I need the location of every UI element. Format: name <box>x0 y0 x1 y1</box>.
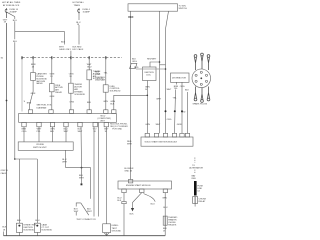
svg-text:SOLENOID: SOLENOID <box>41 230 52 232</box>
wire col6 label GRN BLK <box>110 101 115 105</box>
MCU top pin 6 <box>112 110 116 114</box>
wire heater pin1 down <box>123 193 125 202</box>
svg-text:GND 14: GND 14 <box>124 170 132 172</box>
distributor body box <box>171 73 190 82</box>
solenoid box2 label <box>41 223 52 231</box>
solid state ignition module box <box>141 137 193 146</box>
wire label BLU WHT mid <box>79 175 84 179</box>
wire merged column down to MCU <box>70 51 72 110</box>
svg-text:WHT: WHT <box>79 178 84 180</box>
wire heater pin3 label GRN <box>162 197 167 199</box>
wire label BLU at y40 on x14.8 <box>13 41 18 43</box>
spark plug lower 2 <box>201 88 204 103</box>
wire col5 from boundary down <box>105 58 107 110</box>
svg-text:HOT AT ALL TIMES: HOT AT ALL TIMES <box>2 1 21 4</box>
svg-text:ORG: ORG <box>69 102 74 104</box>
ignition coil box <box>143 67 157 81</box>
MCU top pin 2 <box>49 110 53 114</box>
box E label <box>110 86 121 93</box>
svg-text:DIAGRAM: DIAGRAM <box>37 106 47 109</box>
svg-text:WHT: WHT <box>78 131 83 133</box>
alternator note dashes lower <box>194 170 196 174</box>
wire heater pin2 arc branch <box>144 194 156 202</box>
wire label YEL on pin a wire <box>173 97 178 99</box>
off-page flag on x130.7 wire <box>130 63 137 68</box>
svg-text:TO IGN: TO IGN <box>179 5 187 7</box>
wire from feed box x131 long to heater control <box>130 11 132 179</box>
wire label WHT on x159.5 <box>156 99 161 101</box>
svg-text:BLK: BLK <box>110 103 115 105</box>
wire label GRY 18 <box>3 19 8 23</box>
svg-text:WHT: WHT <box>156 99 161 101</box>
junction splice dot on left wire <box>6 100 8 102</box>
choke relay fuse label <box>199 199 207 204</box>
junction dot at L bend <box>14 158 16 160</box>
solenoid box A (canister purge) <box>31 73 36 81</box>
wire col3 label below box <box>69 102 74 104</box>
ground bus left end tick <box>3 232 5 236</box>
wire label ORG lower x165.5 <box>167 119 172 121</box>
wire coil top jog <box>150 62 160 67</box>
wire label BAT RED <box>192 174 197 179</box>
terminal square end of pin5 wire <box>81 183 83 185</box>
heater control switch box <box>118 181 172 189</box>
wire L bend bottom: horizontal y159 <box>15 158 38 160</box>
wire corner from y31 branch down at x64.3 <box>63 31 65 44</box>
MCU top pin 4 <box>87 110 91 114</box>
test connector jumper diagonal <box>81 203 89 215</box>
wire drop x90.6 to test connector <box>90 168 92 199</box>
wire jog x159.5 to x165.5 <box>160 64 166 66</box>
wire module pin6 label <box>185 89 190 91</box>
svg-text:COIL: COIL <box>146 75 152 77</box>
solenoid box C <box>69 83 74 93</box>
test connector stub label left <box>74 209 79 213</box>
test connector stub label right <box>87 209 92 213</box>
wire fuse F2 down <box>78 14 80 45</box>
firewall dashed boundary horizontal <box>23 57 122 59</box>
svg-text:HOT AT ALL: HOT AT ALL <box>73 1 85 4</box>
arc branch label BLU <box>151 203 156 205</box>
svg-text:BLU: BLU <box>61 42 66 44</box>
wire heater pin2 diagonal <box>133 193 142 208</box>
svg-text:TEST CONNECTOR: TEST CONNECTOR <box>76 219 96 221</box>
alternator note dashes upper <box>194 158 196 163</box>
MCU bottom pin 1 <box>22 122 26 126</box>
wire left main vertical continues to ground bus <box>6 23 8 236</box>
splice mark left of dash start <box>1 57 4 59</box>
MCU bottom pin 6 <box>93 122 97 126</box>
test connector left lower stub <box>75 212 77 216</box>
svg-text:BLK: BLK <box>117 200 122 202</box>
wire second vertical x15.6 <box>14 17 16 159</box>
svg-text:VALVE: VALVE <box>36 82 43 85</box>
wire label BLU WHT below switch unit <box>62 159 67 163</box>
ground V mark under diag box <box>104 233 109 236</box>
wire col4 label WHT BLU <box>87 64 92 68</box>
svg-text:SOLID STATE IGNITION MODULE: SOLID STATE IGNITION MODULE <box>145 141 178 144</box>
node HOT AT ALL TIMES (top-left feed label) <box>2 1 21 7</box>
wire label RED WHT above coil <box>147 59 157 61</box>
wire col5 label GRN below box <box>103 101 108 103</box>
wire col4 label BLU below box <box>87 102 92 104</box>
wire heater pin2 arrow label <box>130 213 135 215</box>
wire MCU pin4 to switch unit box <box>65 127 67 142</box>
wire col5 label YEL <box>104 72 109 74</box>
svg-text:IGNITION: IGNITION <box>144 72 154 74</box>
wire jog joining col 80 to 90.6 <box>66 167 91 169</box>
svg-text:RELAY: RELAY <box>199 200 206 203</box>
wire heater pin2 arrow connector <box>131 208 134 211</box>
svg-text:ORG: ORG <box>167 119 172 121</box>
splice label S205 EXC CALIF <box>73 46 84 51</box>
MCU bottom pin 5 <box>78 122 82 126</box>
wire label GRN lower pin a wire <box>177 124 182 126</box>
svg-text:WHT: WHT <box>62 161 67 163</box>
svg-text:CALIF ONLY: CALIF ONLY <box>59 48 72 51</box>
svg-text:RED: RED <box>128 16 133 19</box>
diagnostic box label <box>112 225 122 232</box>
distributor label <box>172 78 187 80</box>
resistance wire label <box>168 217 177 227</box>
svg-text:BLU: BLU <box>13 41 18 43</box>
box C label <box>74 84 85 96</box>
wire col1 label near pin <box>27 102 32 104</box>
switch unit box (second long box) <box>18 142 73 150</box>
MCU bottom pin 7 <box>104 122 108 126</box>
module pin label row WHT <box>156 124 161 126</box>
wire heater pin1 to bus <box>123 204 125 236</box>
box B label <box>55 85 63 94</box>
MCU bottom pin 3 <box>50 122 54 126</box>
svg-text:EXC CALIF: EXC CALIF <box>73 48 84 51</box>
wire MCU pin5 down to terminal <box>80 127 83 184</box>
wire MCU pin6 to test connector <box>93 127 95 217</box>
svg-text:RELAY: RELAY <box>55 91 62 94</box>
choke relay fuse element below battery feed <box>193 197 198 204</box>
ignition coil label <box>144 72 154 77</box>
note text left of col5 <box>95 72 106 82</box>
svg-text:BLK RED: BLK RED <box>73 46 82 48</box>
svg-text:BLU: BLU <box>35 220 40 222</box>
wire drop to solenoid box2 <box>36 159 38 223</box>
svg-text:BLK: BLK <box>185 89 190 91</box>
MCU top pin 1 <box>28 110 32 114</box>
heater control label <box>126 184 151 187</box>
feed box label right <box>179 5 188 10</box>
svg-text:RELAYS: RELAYS <box>168 223 177 226</box>
wire col1 label GRN below box <box>31 93 36 95</box>
fuse F1 <box>5 8 7 14</box>
inline connector dot 1 <box>165 110 167 112</box>
switch unit label <box>33 144 47 149</box>
splice mark near boundary vertical <box>24 101 26 103</box>
fuse F1 value label <box>10 9 19 14</box>
svg-text:BLU: BLU <box>87 66 92 68</box>
svg-text:WHT: WHT <box>74 211 79 213</box>
svg-text:AT FUSE BLOCK: AT FUSE BLOCK <box>3 4 20 7</box>
heater pin1 inline connector <box>122 202 126 204</box>
svg-text:WHT: WHT <box>127 144 132 146</box>
battery feed thick wire <box>194 181 197 196</box>
svg-text:BRN: BRN <box>27 102 32 104</box>
solenoid box1 (bottom left) <box>16 223 22 232</box>
svg-text:BLU: BLU <box>17 220 22 222</box>
svg-text:BLK: BLK <box>2 227 7 229</box>
splice label S204 CALIF ONLY <box>59 46 72 51</box>
svg-text:15 AMP: 15 AMP <box>83 11 91 14</box>
svg-text:RED: RED <box>134 67 139 69</box>
wire diag box to bus <box>106 233 108 236</box>
wire label BLU above box1 <box>17 220 22 222</box>
diagnostic box bottom <box>103 224 111 233</box>
spark plug upper 3 <box>207 55 210 70</box>
ignition switch feed box (top right) <box>128 4 178 11</box>
box A label <box>36 73 47 86</box>
distributor cap center dot <box>200 77 202 79</box>
tach lead label <box>134 67 139 69</box>
wire label RED on pin b wire <box>181 111 186 113</box>
node HOT IN RUN (second feed label) <box>73 1 85 7</box>
spark plug lower 1 <box>194 87 197 101</box>
battery feed label right <box>197 185 203 192</box>
wire label ETERNAL GND above heater pin <box>124 168 134 172</box>
svg-text:WHT: WHT <box>87 211 92 213</box>
alternator note text <box>189 165 203 170</box>
MCU label <box>98 116 112 123</box>
test connector label <box>76 219 96 221</box>
wire label RED below feed box <box>128 16 133 19</box>
fuse F2 value label <box>83 9 91 14</box>
wire MCU pin3 to switch unit box <box>52 127 54 142</box>
MCU bottom pin 4 <box>64 122 68 126</box>
svg-text:TIMES: TIMES <box>74 5 81 7</box>
svg-text:GRN: GRN <box>50 96 55 98</box>
wire distributor pin a down to module <box>175 82 177 133</box>
svg-text:SPARK PLUGS: SPARK PLUGS <box>193 103 208 106</box>
wire distributor pin a label <box>174 86 179 90</box>
firewall dashed boundary vertical <box>21 58 23 112</box>
wire box1 to ground bus <box>18 232 20 235</box>
module pin 5 <box>180 133 184 137</box>
svg-text:ALTERNATOR: ALTERNATOR <box>189 167 203 170</box>
wire label BLK 18 near bottom left <box>2 227 7 232</box>
svg-text:GRN: GRN <box>103 101 108 103</box>
spark plug upper 2 <box>201 53 204 69</box>
module pin 2 <box>154 133 158 137</box>
svg-text:SOLENOID: SOLENOID <box>23 230 34 232</box>
wire label BLK below resistance wire <box>163 228 168 232</box>
wire coil bottom to module pin1 <box>146 81 148 134</box>
solenoid box E (fuel control) <box>103 85 108 92</box>
wire BLK left main vertical <box>6 14 8 19</box>
wire horizontal branch y31.3 to merge column <box>15 30 65 32</box>
module pin 3 <box>163 133 167 137</box>
heater bottom pin 2 <box>140 189 144 193</box>
wire branch diagonal from fuse F1 <box>7 12 15 16</box>
svg-text:GRN: GRN <box>31 93 36 95</box>
box D label <box>93 71 104 80</box>
module pin 4 <box>172 133 176 137</box>
svg-text:GRN: GRN <box>177 124 182 126</box>
solenoid box2 (bottom left) <box>34 223 40 232</box>
svg-text:BLU: BLU <box>151 203 156 205</box>
svg-text:ORG W: ORG W <box>1 170 8 172</box>
wire MCU pin7 to diag box <box>105 127 107 224</box>
wire label RED WHT (x131 lower) <box>127 141 132 145</box>
svg-text:SOLENOID: SOLENOID <box>74 94 85 96</box>
wire from switch unit bottom <box>65 150 67 167</box>
spark plug lower 3 <box>207 87 210 101</box>
svg-text:ORG: ORG <box>180 86 185 88</box>
note SEE FUEL diagram above MCU <box>37 105 52 110</box>
heater control box top pin <box>128 180 132 183</box>
svg-text:CALIF: CALIF <box>1 172 8 175</box>
wire col1 from boundary down <box>30 58 34 110</box>
boundary crossing tick col3 <box>70 56 72 59</box>
module pin 1 <box>145 133 149 137</box>
svg-text:WHT: WHT <box>59 46 64 48</box>
svg-text:SWITCH UNIT: SWITCH UNIT <box>33 147 47 149</box>
wire drop to solenoid box1 <box>18 159 20 223</box>
boundary start tick <box>21 56 23 59</box>
wire label WHT on x165.5 <box>167 89 172 91</box>
distributor cap circle <box>192 69 211 88</box>
MCU top pin 3 <box>69 110 73 114</box>
boundary crossing tick col2 <box>51 56 53 59</box>
wire heater pin1 label <box>117 197 122 201</box>
svg-text:BLK: BLK <box>130 213 135 215</box>
module pin 6 <box>185 133 189 137</box>
svg-text:BLU: BLU <box>163 207 168 209</box>
inline connector dot 3 <box>181 110 183 112</box>
wire col3 merged column labels <box>69 73 74 77</box>
ground bus bottom <box>4 235 166 237</box>
spark plugs label <box>193 103 208 106</box>
svg-text:DIAGRAM: DIAGRAM <box>95 78 105 81</box>
solenoid box D <box>87 70 92 80</box>
module pin label row GRN <box>145 124 150 126</box>
fuse F2 <box>78 8 80 14</box>
wire module pin6 stub up <box>187 92 189 133</box>
wire extra test lead <box>97 122 99 216</box>
wire col1 label BRN <box>31 64 36 68</box>
heater bottom pin 1 <box>122 189 126 193</box>
tach test gray lead through coil <box>136 68 166 70</box>
wire MCU pin2 to switch unit box <box>38 127 40 142</box>
junction dot tach lead <box>165 68 167 70</box>
inline connector dot 2 <box>174 110 176 112</box>
wire from feed box x168.5 with diagonal <box>166 11 169 133</box>
wire from feed box x159.5 <box>159 11 161 133</box>
wire distributor pin b label <box>180 86 185 88</box>
boundary crossing tick col4 <box>88 56 90 59</box>
wire col2 label below box <box>50 96 55 98</box>
wire label BLU above resistance wire <box>163 207 168 209</box>
junction dot coil bottom wire <box>147 95 149 97</box>
svg-text:CRUISE: CRUISE <box>36 144 44 146</box>
svg-text:GRN: GRN <box>145 124 150 126</box>
svg-text:20 AMP: 20 AMP <box>10 11 18 14</box>
wire heater pin3 down <box>164 193 166 217</box>
svg-text:GROUND: GROUND <box>112 230 122 232</box>
wire col4 from boundary down <box>88 58 90 110</box>
boundary crossing tick col1 <box>32 56 34 59</box>
boundary crossing tick col5 <box>105 56 107 59</box>
svg-text:RED: RED <box>192 178 197 180</box>
spark plug upper 1 <box>194 55 197 70</box>
wire label BLU on branch <box>13 20 18 22</box>
wire label BLK ORG mid (x131) <box>132 58 137 62</box>
svg-text:FOR GND: FOR GND <box>112 129 122 131</box>
solenoid box1 label <box>23 224 36 231</box>
wire col2 label GRN <box>50 73 55 77</box>
distributor cap terminal circles <box>195 71 208 85</box>
svg-text:BLU: BLU <box>87 102 92 104</box>
svg-text:WHT: WHT <box>156 124 161 126</box>
MCU computer unit box <box>19 113 117 122</box>
wire label GRN below coil <box>145 86 150 90</box>
relay box B <box>50 84 55 92</box>
junction dot coil top <box>159 61 161 63</box>
test connector bridge horizontal <box>76 203 81 207</box>
svg-text:CASE: CASE <box>41 223 47 226</box>
svg-text:WHT: WHT <box>167 89 172 91</box>
wire choke element stub down <box>194 204 196 207</box>
module label <box>145 141 178 144</box>
svg-text:SWITCH: SWITCH <box>179 8 188 10</box>
svg-text:DISTRIBUTOR: DISTRIBUTOR <box>172 78 187 80</box>
svg-text:WHT: WHT <box>64 131 69 133</box>
MCU bottom pin 2 <box>37 122 41 126</box>
wire label BLU above box2 <box>35 220 40 222</box>
wire label CALIF ONLY mid left <box>1 170 8 175</box>
wire distributor pin b down to module <box>181 82 183 133</box>
svg-text:SOLENOID: SOLENOID <box>110 91 121 93</box>
wire col2 from boundary down <box>51 58 53 110</box>
svg-text:GRN: GRN <box>162 197 167 199</box>
wire resistance to bus <box>164 225 166 236</box>
wire label BLU on fuse2 wire <box>76 22 81 26</box>
MCU pin note text right <box>110 123 128 130</box>
svg-text:SEE FUEL SYS: SEE FUEL SYS <box>37 105 52 107</box>
svg-text:ENGINE START MODULE: ENGINE START MODULE <box>126 184 151 187</box>
svg-text:WHT: WHT <box>152 59 157 61</box>
MCU bottom pin labels row <box>22 128 109 132</box>
wire box2 to ground bus <box>36 232 38 235</box>
wire label BLU on corner wire <box>61 42 66 44</box>
wire col6 L from MCU pin up and right to coil wire <box>114 95 148 110</box>
MCU top pin 5 <box>104 110 108 114</box>
resistance wire box <box>163 216 167 225</box>
svg-text:ORG: ORG <box>132 61 137 63</box>
heater bottom pin 3 <box>163 189 167 193</box>
junction dot at x81.5 crossing <box>81 167 83 169</box>
wire MCU pin1 to switch unit box <box>23 127 25 142</box>
